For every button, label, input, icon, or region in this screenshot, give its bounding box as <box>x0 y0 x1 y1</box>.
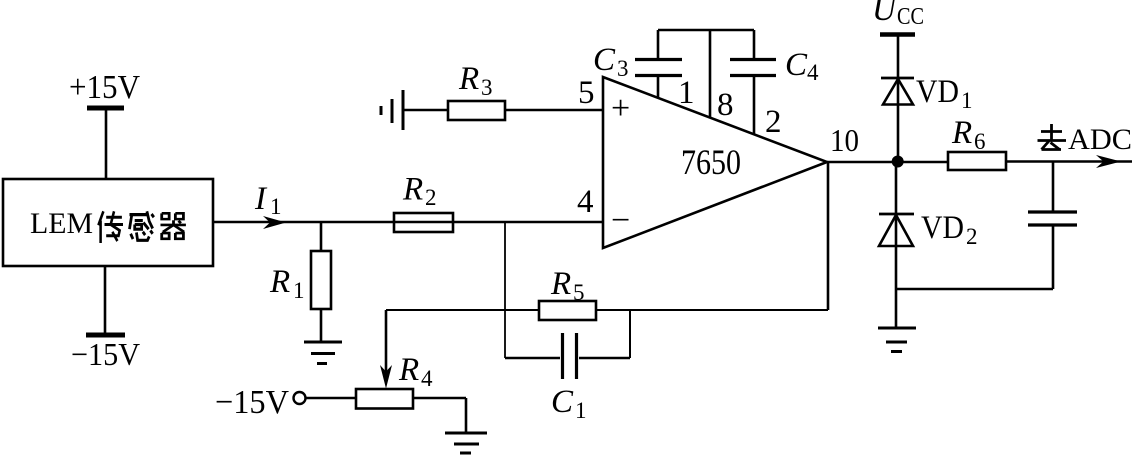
svg-text:4: 4 <box>577 184 594 220</box>
svg-text:U: U <box>872 0 898 28</box>
svg-text:CC: CC <box>897 4 924 30</box>
svg-text:4: 4 <box>807 60 819 85</box>
svg-text:R: R <box>458 61 479 97</box>
svg-text:3: 3 <box>617 56 629 81</box>
svg-text:R: R <box>951 115 972 151</box>
svg-text:7650: 7650 <box>681 142 741 182</box>
svg-text:R: R <box>398 352 419 388</box>
svg-text:10: 10 <box>830 122 859 158</box>
svg-text:−15V: −15V <box>71 336 140 372</box>
svg-text:5: 5 <box>578 75 595 111</box>
svg-text:C: C <box>785 47 808 83</box>
svg-text:1: 1 <box>293 278 305 303</box>
svg-text:R: R <box>550 266 571 302</box>
svg-text:1: 1 <box>961 88 973 113</box>
svg-text:4: 4 <box>421 366 433 391</box>
svg-text:5: 5 <box>573 280 585 305</box>
svg-text:1: 1 <box>270 194 282 219</box>
svg-text:1: 1 <box>678 75 695 111</box>
svg-text:6: 6 <box>974 129 986 154</box>
svg-text:8: 8 <box>717 87 734 123</box>
svg-text:LEM: LEM <box>30 207 93 240</box>
svg-text:I: I <box>254 181 268 217</box>
svg-text:2: 2 <box>425 185 437 210</box>
svg-text:1: 1 <box>575 398 587 423</box>
svg-text:2: 2 <box>765 104 782 140</box>
svg-text:ADC: ADC <box>1068 123 1132 156</box>
svg-text:C: C <box>551 384 574 420</box>
svg-text:−15V: −15V <box>215 384 289 421</box>
svg-text:+15V: +15V <box>69 69 140 106</box>
svg-text:2: 2 <box>966 224 978 249</box>
svg-text:VD: VD <box>916 74 959 110</box>
svg-text:C: C <box>593 42 616 78</box>
svg-text:VD: VD <box>921 210 964 246</box>
svg-text:R: R <box>402 172 423 208</box>
svg-text:3: 3 <box>481 75 493 100</box>
svg-text:−: − <box>611 202 630 239</box>
svg-text:R: R <box>269 264 290 300</box>
svg-text:+: + <box>611 90 630 127</box>
